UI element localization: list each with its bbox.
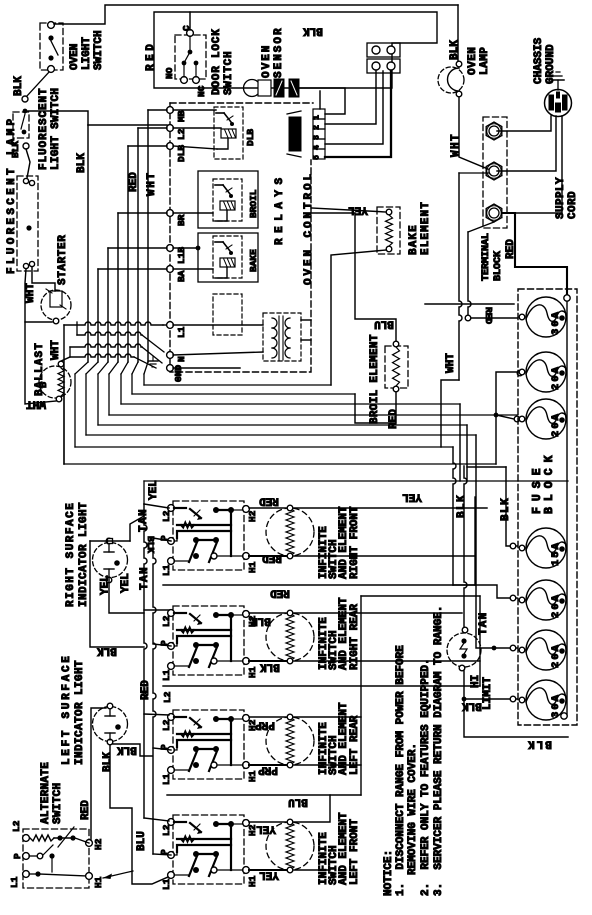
svg-text:L1: L1 bbox=[176, 326, 187, 338]
connector plug hatched bbox=[289, 117, 301, 151]
wire bus 415 to fuse 3 bbox=[514, 416, 520, 422]
svg-text:FLUORESCENT LAMP: FLUORESCENT LAMP bbox=[6, 116, 18, 274]
chassis ground plug bbox=[545, 90, 572, 117]
svg-text:RED: RED bbox=[262, 552, 282, 564]
svg-text:LIMIT: LIMIT bbox=[482, 677, 494, 710]
wire oven light switch to fluorescent light switch bbox=[27, 72, 49, 96]
element right rear bbox=[266, 613, 314, 661]
svg-text:SWITCH: SWITCH bbox=[223, 51, 235, 95]
svg-text:SWITCH: SWITCH bbox=[52, 783, 64, 824]
wire bus 425 down bbox=[466, 425, 468, 481]
svg-text:30A: 30A bbox=[550, 693, 562, 718]
wire YEL bus down left side bbox=[144, 504, 147, 818]
svg-text:YEL: YEL bbox=[256, 823, 276, 835]
wire fuse5 jog bbox=[453, 585, 517, 598]
svg-text:20A: 20A bbox=[550, 593, 562, 618]
svg-text:OVEN CONTROL: OVEN CONTROL bbox=[303, 171, 315, 285]
relay BROIL bbox=[213, 179, 242, 221]
svg-text:FLUORESCENT: FLUORESCENT bbox=[38, 87, 50, 170]
fuse 20A y600 bbox=[526, 580, 566, 620]
oven control terminals bbox=[167, 107, 174, 114]
svg-text:NC: NC bbox=[196, 85, 207, 97]
svg-text:L2: L2 bbox=[176, 128, 187, 140]
terminal block box bbox=[483, 117, 507, 228]
svg-text:L1: L1 bbox=[9, 876, 20, 888]
wire lamp to terminal block bbox=[459, 97, 488, 169]
svg-text:BAKE: BAKE bbox=[248, 249, 259, 272]
svg-text:LIGHT: LIGHT bbox=[81, 37, 93, 70]
svg-text:BLK: BLK bbox=[260, 661, 280, 673]
wire row to GND terminal bbox=[70, 344, 142, 347]
svg-text:BLOCK: BLOCK bbox=[493, 251, 504, 281]
svg-text:RED: RED bbox=[145, 41, 157, 71]
svg-text:RED: RED bbox=[388, 409, 400, 429]
wires left indicator bbox=[91, 708, 106, 843]
svg-text:2. REFER ONLY TO FEATURES EQU: 2. REFER ONLY TO FEATURES EQUIPPED. bbox=[420, 658, 432, 896]
fluorescent lamp bbox=[17, 176, 38, 271]
oven sensor bbox=[244, 80, 261, 97]
svg-text:ELEMENT: ELEMENT bbox=[420, 201, 432, 255]
wire H1 RR to element and right bbox=[249, 660, 286, 662]
svg-text:PRP: PRP bbox=[258, 764, 278, 776]
wire H2 RF to element and right bbox=[249, 507, 286, 509]
wire DLB to terminal bbox=[173, 146, 217, 149]
svg-text:30A: 30A bbox=[550, 310, 562, 335]
svg-text:H1: H1 bbox=[247, 875, 258, 887]
svg-text:BLK: BLK bbox=[303, 25, 323, 37]
svg-text:BA: BA bbox=[176, 270, 187, 282]
svg-text:BLK: BLK bbox=[456, 494, 468, 518]
fuse 30A y700 bbox=[526, 680, 566, 720]
wire top bus down to lamp bbox=[457, 5, 459, 61]
wire row to N terminal bbox=[77, 332, 142, 335]
svg-text:RED: RED bbox=[80, 800, 92, 820]
svg-text:TAN: TAN bbox=[139, 566, 151, 590]
fuse block right bus bbox=[566, 298, 568, 716]
wire fluorescent switch to lamp bbox=[26, 149, 30, 178]
infinite switch right front bbox=[173, 501, 244, 570]
wire RED vertical to fuse 1 bbox=[468, 222, 494, 232]
fuse 30A y317 bbox=[526, 297, 566, 337]
wire pin2 to lamp receptacle bbox=[325, 71, 376, 124]
ballast bbox=[39, 366, 71, 398]
svg-text:BLK: BLK bbox=[462, 700, 482, 712]
oven lamp receptacle bbox=[367, 43, 400, 57]
wire bake element bottom bbox=[331, 250, 386, 385]
svg-text:WHT: WHT bbox=[450, 133, 462, 157]
infinite switch left rear bbox=[173, 710, 244, 779]
fuse 15A y548 bbox=[526, 528, 566, 568]
wire hi limit to fuse 7 bbox=[464, 671, 517, 699]
svg-text:HI: HI bbox=[470, 675, 482, 688]
wire H2 LF to element and right bbox=[249, 821, 286, 823]
svg-text:BLK: BLK bbox=[76, 153, 88, 173]
wire sensor to connector bbox=[299, 88, 345, 114]
svg-text:20A: 20A bbox=[550, 365, 562, 390]
wire N to transformer bbox=[173, 352, 263, 355]
fuse 20A y419 bbox=[526, 399, 566, 439]
bus wires staircase from oven control to right side bbox=[144, 384, 331, 386]
svg-text:RIGHT REAR: RIGHT REAR bbox=[349, 604, 361, 670]
svg-text:SENSOR: SENSOR bbox=[273, 26, 285, 78]
svg-text:H1: H1 bbox=[247, 561, 258, 573]
wire L1 into control bbox=[173, 324, 263, 326]
wire bus 435 down to fuse 6 bbox=[476, 435, 517, 648]
infinite switch right rear bbox=[173, 606, 244, 675]
svg-text:WHT: WHT bbox=[26, 398, 46, 410]
wire GND stub bbox=[173, 367, 240, 369]
fuse 20A y650 bbox=[526, 630, 566, 670]
svg-text:RED: RED bbox=[259, 495, 279, 507]
svg-text:WHT: WHT bbox=[146, 171, 158, 196]
alternate switch bbox=[23, 829, 89, 888]
bus line YEL horizontal bbox=[144, 480, 568, 482]
wire L2 to DLB coil bbox=[173, 127, 221, 129]
wire BA to BAKE relay bbox=[173, 268, 213, 270]
wire ballast top to row bbox=[61, 357, 70, 361]
wire broil top bbox=[311, 213, 396, 341]
svg-text:BLOCK: BLOCK bbox=[543, 449, 556, 514]
svg-text:L1B: L1B bbox=[176, 247, 187, 264]
svg-text:OVEN: OVEN bbox=[467, 47, 479, 75]
hi limit switch bbox=[447, 633, 481, 667]
svg-text:TERMINAL: TERMINAL bbox=[481, 233, 492, 281]
wire lamp white down to ballast bbox=[25, 322, 56, 404]
bake element bbox=[377, 207, 400, 254]
fuse block box bbox=[518, 289, 577, 725]
svg-text:INDICATOR LIGHT: INDICATOR LIGHT bbox=[74, 660, 86, 765]
svg-text:BLK: BLK bbox=[145, 536, 156, 553]
svg-text:15A: 15A bbox=[550, 541, 562, 566]
svg-text:YEL: YEL bbox=[120, 573, 132, 593]
svg-text:5: 5 bbox=[313, 155, 322, 160]
svg-text:BAKE: BAKE bbox=[408, 224, 420, 255]
fluorescent light switch bbox=[13, 112, 29, 138]
svg-text:20A: 20A bbox=[550, 412, 562, 437]
wires transformer to right bbox=[301, 319, 311, 321]
wire H1 RF to element and right bbox=[249, 555, 286, 557]
svg-text:BALLAST: BALLAST bbox=[34, 342, 46, 396]
wire H1 LF to element and right bbox=[249, 869, 286, 871]
wire oven light switch to top bus bbox=[54, 5, 458, 24]
wire fuse4 from bus bbox=[506, 467, 517, 546]
svg-text:BLK: BLK bbox=[13, 76, 25, 96]
svg-text:BROIL ELEMENT: BROIL ELEMENT bbox=[369, 334, 381, 424]
svg-text:1. DISCONNECT RANGE FROM POWE: 1. DISCONNECT RANGE FROM POWER BEFORE bbox=[395, 645, 407, 896]
svg-text:WHT: WHT bbox=[445, 353, 457, 373]
wire TAN bus bbox=[153, 538, 156, 854]
svg-text:BLU: BLU bbox=[136, 831, 148, 851]
svg-text:20A: 20A bbox=[550, 643, 562, 668]
svg-text:BLK: BLK bbox=[251, 615, 271, 627]
left surface indicator light bbox=[93, 707, 128, 742]
supply cord heavy path bbox=[503, 213, 567, 298]
svg-text:SUPPLY: SUPPLY bbox=[555, 177, 567, 219]
svg-text:RED: RED bbox=[505, 239, 517, 259]
svg-text:L2: L2 bbox=[161, 615, 172, 627]
svg-text:L1: L1 bbox=[161, 773, 172, 785]
relay BAKE bracket bbox=[198, 233, 258, 282]
chassis ground symbol bbox=[557, 80, 559, 90]
wire pin1 down from door lock bbox=[319, 91, 321, 109]
wires right indicator bbox=[108, 539, 113, 544]
terminal block stud 3 bbox=[486, 204, 502, 222]
wire C terminal up bbox=[189, 12, 191, 30]
oven lamp bbox=[438, 67, 464, 93]
enclosure right rear bbox=[163, 685, 480, 687]
broil element bbox=[385, 346, 408, 388]
svg-text:RED: RED bbox=[140, 680, 152, 700]
element left front bbox=[266, 822, 314, 870]
enclosure left rear bbox=[167, 794, 361, 796]
wire row L1 to oven control bbox=[64, 322, 163, 325]
wire MB to DLB relay bbox=[173, 109, 216, 111]
wire H2 RR to element and right bbox=[249, 612, 286, 614]
wire WHT vertical bbox=[459, 172, 489, 174]
svg-text:RIGHT FRONT: RIGHT FRONT bbox=[349, 506, 361, 579]
wire bus to hi limit bbox=[464, 466, 467, 627]
svg-text:L2: L2 bbox=[162, 691, 173, 703]
svg-text:RED: RED bbox=[128, 172, 140, 192]
relay DLB bbox=[214, 107, 243, 159]
svg-text:P: P bbox=[12, 853, 23, 859]
element left rear bbox=[266, 717, 314, 765]
wire broil bottom bbox=[355, 392, 396, 423]
svg-text:BLK: BLK bbox=[117, 744, 137, 756]
svg-text:YEL: YEL bbox=[100, 575, 112, 595]
infinite switch left front bbox=[173, 815, 244, 884]
svg-text:DLB: DLB bbox=[245, 129, 256, 146]
door lock switch bbox=[175, 35, 206, 79]
svg-text:C: C bbox=[181, 25, 192, 31]
svg-text:PRP: PRP bbox=[255, 719, 275, 731]
svg-text:ALTERNATE: ALTERNATE bbox=[40, 762, 52, 824]
svg-text:L2: L2 bbox=[161, 824, 172, 836]
svg-text:LAMP: LAMP bbox=[479, 47, 491, 75]
svg-text:NOTICE:: NOTICE: bbox=[383, 850, 395, 896]
svg-text:REMOVING WIRE COVER.: REMOVING WIRE COVER. bbox=[407, 743, 419, 875]
svg-text:BLK: BLK bbox=[526, 738, 552, 750]
wire bake element top bbox=[311, 208, 386, 212]
wire bus 464 up to fuse 2 bbox=[496, 372, 517, 464]
oven light switch bbox=[40, 23, 63, 70]
wire L1B to BAKE relay bbox=[173, 247, 198, 249]
wire bus 447 down bbox=[453, 447, 456, 585]
svg-text:LIGHT SWITCH: LIGHT SWITCH bbox=[50, 88, 62, 170]
wire fluorescent switch to BLK bus bbox=[28, 111, 88, 125]
svg-text:LEFT SURFACE: LEFT SURFACE bbox=[61, 653, 73, 765]
svg-text:H1: H1 bbox=[247, 770, 258, 782]
svg-text:L2: L2 bbox=[161, 510, 172, 522]
wire pin4 to lamp receptacle bbox=[325, 71, 383, 144]
svg-text:L1: L1 bbox=[161, 669, 172, 681]
wire BR to BROIL relay bbox=[173, 212, 213, 214]
wire fuse6 terminal bbox=[510, 645, 516, 651]
svg-text:BLK: BLK bbox=[449, 40, 461, 60]
enclosure right front bbox=[163, 584, 475, 586]
arrow to H1 bbox=[103, 871, 133, 878]
svg-text:GND: GND bbox=[173, 365, 184, 382]
svg-text:H2: H2 bbox=[93, 838, 104, 850]
svg-text:GROUND: GROUND bbox=[545, 44, 557, 84]
starter bbox=[41, 290, 71, 320]
svg-text:BLU: BLU bbox=[288, 796, 308, 808]
wire red top bus bbox=[425, 303, 514, 305]
svg-text:N: N bbox=[176, 356, 187, 362]
element right front bbox=[266, 508, 314, 556]
svg-text:L2: L2 bbox=[161, 719, 172, 731]
terminal block stud 1 bbox=[486, 122, 502, 140]
svg-text:TAN: TAN bbox=[478, 612, 490, 635]
solid enclosure box top bbox=[154, 12, 437, 88]
wire H2 LR to element and right bbox=[249, 716, 286, 718]
svg-text:3. SERVICER PLEASE RETURN DIA: 3. SERVICER PLEASE RETURN DIAGRAM TO RAN… bbox=[433, 606, 445, 896]
right surface indicator light bbox=[93, 543, 128, 578]
svg-text:YEL: YEL bbox=[259, 869, 279, 881]
svg-text:STARTER: STARTER bbox=[57, 235, 69, 285]
svg-text:RELAYS: RELAYS bbox=[274, 172, 286, 245]
oven control box bbox=[170, 103, 311, 372]
svg-text:H1: H1 bbox=[247, 666, 258, 678]
wire bus 404 down bbox=[459, 404, 461, 481]
wires terminals to bundle bbox=[148, 109, 167, 111]
wire row from ballast bbox=[70, 354, 134, 357]
svg-text:BROIL: BROIL bbox=[248, 189, 259, 218]
svg-text:RED: RED bbox=[483, 307, 494, 324]
svg-text:LEFT FRONT: LEFT FRONT bbox=[349, 819, 361, 885]
svg-text:OVEN: OVEN bbox=[69, 44, 81, 70]
wire hi limit BLK bottom bbox=[464, 699, 568, 737]
wires lamp to starter bbox=[32, 267, 55, 291]
svg-text:OVEN: OVEN bbox=[261, 44, 273, 78]
svg-text:CHASSIS: CHASSIS bbox=[533, 37, 545, 84]
svg-text:WHT: WHT bbox=[50, 340, 62, 360]
svg-text:YEL: YEL bbox=[402, 491, 422, 503]
svg-text:WHT: WHT bbox=[25, 283, 37, 303]
spare relay box bbox=[213, 294, 242, 335]
transformer bbox=[263, 313, 301, 361]
connector pins 1-5 bbox=[313, 109, 325, 119]
svg-text:INDICATOR LIGHT: INDICATOR LIGHT bbox=[78, 502, 90, 607]
svg-text:TAN: TAN bbox=[138, 508, 150, 532]
relay BROIL bracket bbox=[198, 171, 258, 228]
svg-text:LEFT REAR: LEFT REAR bbox=[349, 715, 361, 775]
terminal block stud 2 bbox=[486, 162, 502, 180]
svg-text:NO: NO bbox=[164, 67, 175, 79]
svg-text:L1: L1 bbox=[161, 564, 172, 576]
svg-text:BLK: BLK bbox=[97, 645, 117, 657]
svg-text:L2: L2 bbox=[11, 820, 22, 832]
wire pin5 heavy bbox=[325, 71, 391, 157]
ground symbol at oven control bbox=[148, 360, 158, 362]
wire H1 LR to element and right bbox=[249, 764, 286, 766]
svg-text:DOOR LOCK: DOOR LOCK bbox=[211, 28, 223, 95]
svg-text:YEL: YEL bbox=[148, 480, 160, 500]
svg-text:BR: BR bbox=[176, 214, 187, 226]
supply cord wires to plug bbox=[497, 116, 551, 131]
svg-text:RED: RED bbox=[270, 587, 290, 599]
svg-text:SWITCH: SWITCH bbox=[93, 30, 105, 70]
relay BAKE bbox=[213, 236, 242, 278]
svg-text:RIGHT SURFACE: RIGHT SURFACE bbox=[65, 502, 77, 607]
fuse 20A y372 bbox=[526, 352, 566, 392]
svg-text:H2: H2 bbox=[247, 510, 258, 522]
svg-text:MB: MB bbox=[176, 110, 187, 122]
svg-text:H1: H1 bbox=[93, 876, 104, 888]
svg-text:CORD: CORD bbox=[567, 191, 579, 219]
svg-text:BLK: BLK bbox=[102, 752, 114, 772]
